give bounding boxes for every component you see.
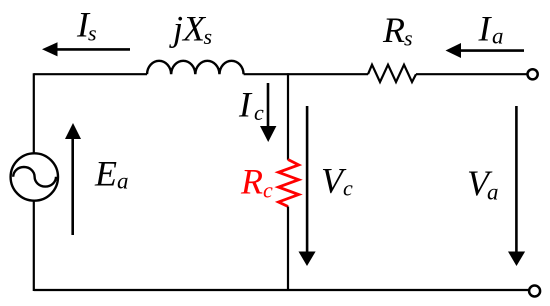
terminal bottom-right open circle bbox=[529, 286, 540, 297]
arrow Ic (points down) bbox=[260, 83, 276, 142]
arrow Va (points down) bbox=[508, 106, 525, 266]
inductor jXs (4 humps) bbox=[147, 61, 244, 74]
svg-text:I: I bbox=[238, 85, 253, 125]
svg-text:a: a bbox=[117, 169, 129, 194]
svg-text:c: c bbox=[263, 178, 273, 203]
svg-text:a: a bbox=[492, 24, 504, 49]
svg-text:E: E bbox=[94, 154, 117, 194]
terminal top-right open circle bbox=[528, 69, 538, 79]
label Rs bbox=[382, 10, 413, 51]
wire top-left horizontal bbox=[34, 73, 147, 75]
svg-text:I: I bbox=[478, 9, 493, 49]
label Vc bbox=[321, 161, 353, 201]
wire top-right horizontal bbox=[416, 73, 528, 75]
label Is bbox=[76, 5, 97, 46]
resistor Rc red zigzag bbox=[279, 160, 299, 207]
wire bottom horizontal bbox=[34, 289, 530, 291]
wire middle vertical upper bbox=[287, 73, 289, 160]
arrow Ia (points left) bbox=[446, 43, 525, 58]
arrow Is (points left) bbox=[42, 42, 130, 56]
resistor Rs zigzag bbox=[368, 65, 416, 82]
svg-text:R: R bbox=[240, 162, 263, 202]
label Va bbox=[467, 163, 499, 205]
label Ic bbox=[238, 85, 264, 126]
svg-text:c: c bbox=[254, 100, 264, 125]
label Ia bbox=[478, 9, 504, 49]
AC source sine wave bbox=[13, 167, 56, 187]
wire middle vertical lower bbox=[287, 207, 289, 291]
svg-text:s: s bbox=[88, 21, 97, 46]
arrow Ea (points up) bbox=[65, 123, 81, 235]
svg-text:c: c bbox=[343, 176, 353, 201]
svg-text:s: s bbox=[204, 24, 213, 49]
label jXs bbox=[169, 9, 212, 50]
arrow Vc (points down) bbox=[299, 106, 316, 266]
svg-text:R: R bbox=[382, 10, 405, 50]
wire left vertical lower bbox=[33, 201, 35, 291]
label Rc (red) bbox=[240, 162, 273, 203]
label Ea bbox=[94, 154, 129, 194]
svg-text:j: j bbox=[169, 9, 183, 49]
wire top-middle horizontal bbox=[244, 73, 368, 75]
AC source Ea circle bbox=[11, 153, 58, 200]
svg-text:a: a bbox=[487, 180, 499, 205]
wire left vertical upper bbox=[33, 73, 35, 153]
svg-text:s: s bbox=[404, 26, 413, 51]
